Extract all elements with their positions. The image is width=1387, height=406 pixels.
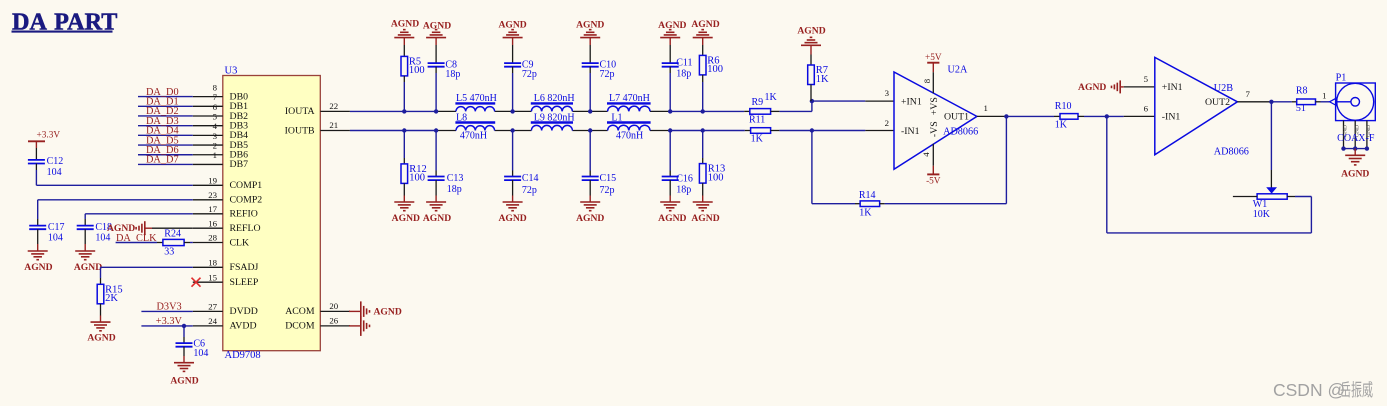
svg-text:33: 33	[164, 247, 174, 258]
svg-text:18p: 18p	[676, 184, 691, 195]
svg-text:72p: 72p	[522, 69, 537, 80]
svg-text:C14: C14	[522, 173, 539, 184]
svg-text:18: 18	[208, 258, 217, 268]
svg-text:AGND: AGND	[576, 213, 604, 224]
svg-text:CLK: CLK	[230, 237, 250, 248]
svg-text:470nH: 470nH	[460, 130, 487, 141]
svg-text:DA_D7: DA_D7	[146, 155, 179, 166]
svg-text:104: 104	[47, 167, 62, 178]
svg-text:COMP1: COMP1	[230, 180, 263, 191]
svg-text:470nH: 470nH	[616, 130, 643, 141]
svg-text:AGND: AGND	[24, 262, 52, 273]
svg-text:1K: 1K	[1055, 120, 1068, 131]
svg-text:COMP2: COMP2	[230, 195, 263, 206]
svg-text:100: 100	[409, 65, 425, 76]
svg-text:1: 1	[984, 103, 988, 113]
svg-text:AGND: AGND	[498, 20, 526, 31]
svg-text:DCOM: DCOM	[285, 321, 315, 332]
svg-text:8: 8	[213, 82, 218, 92]
svg-text:SLEEP: SLEEP	[230, 277, 259, 288]
svg-text:1K: 1K	[765, 92, 778, 103]
svg-text:AGND: AGND	[1078, 82, 1106, 93]
svg-text:1K: 1K	[816, 74, 829, 85]
svg-text:-VS: -VS	[929, 121, 940, 137]
svg-text:岳振威: 岳振威	[1340, 380, 1373, 400]
svg-text:18p: 18p	[445, 69, 460, 80]
svg-text:R9: R9	[752, 97, 764, 108]
svg-text:72p: 72p	[522, 185, 537, 196]
svg-text:+3.3V: +3.3V	[156, 316, 183, 327]
svg-text:D3V3: D3V3	[157, 301, 182, 312]
svg-text:72p: 72p	[600, 69, 615, 80]
svg-text:L5 470nH: L5 470nH	[456, 93, 497, 104]
svg-text:AGND: AGND	[170, 376, 198, 387]
svg-text:26: 26	[329, 316, 338, 326]
svg-text:C15: C15	[600, 173, 617, 184]
svg-text:R11: R11	[749, 114, 765, 125]
svg-text:OUT1: OUT1	[944, 112, 969, 123]
svg-text:6: 6	[1144, 103, 1149, 113]
svg-text:U2B: U2B	[1214, 83, 1233, 94]
svg-text:AGND: AGND	[423, 213, 451, 224]
svg-text:R10: R10	[1055, 101, 1072, 112]
svg-text:L9 820nH: L9 820nH	[534, 112, 575, 123]
svg-text:COAX-F: COAX-F	[1337, 133, 1375, 144]
svg-text:AGND: AGND	[74, 262, 102, 273]
svg-text:28: 28	[208, 233, 217, 243]
svg-text:27: 27	[208, 302, 217, 312]
svg-text:L7 470nH: L7 470nH	[609, 93, 650, 104]
svg-text:L6 820nH: L6 820nH	[534, 93, 575, 104]
svg-text:AGND: AGND	[87, 332, 115, 343]
svg-text:8: 8	[922, 78, 932, 83]
svg-text:-IN1: -IN1	[1162, 112, 1181, 123]
svg-text:AGND: AGND	[658, 20, 686, 31]
svg-text:IOUTB: IOUTB	[285, 125, 315, 136]
svg-text:-IN1: -IN1	[901, 126, 920, 137]
svg-text:1: 1	[1322, 90, 1326, 100]
svg-text:3: 3	[213, 131, 218, 141]
svg-text:C16: C16	[676, 174, 693, 185]
svg-text:AGND: AGND	[498, 213, 526, 224]
svg-text:4: 4	[213, 121, 218, 131]
svg-text:104: 104	[193, 348, 208, 359]
svg-text:100: 100	[409, 173, 425, 184]
svg-text:U3: U3	[225, 65, 238, 76]
svg-text:2K: 2K	[105, 293, 118, 304]
svg-text:18p: 18p	[447, 184, 462, 195]
svg-text:R14: R14	[859, 190, 876, 201]
svg-text:U2A: U2A	[948, 65, 968, 76]
svg-text:REFLO: REFLO	[230, 223, 261, 234]
svg-text:+3.3V: +3.3V	[37, 130, 61, 140]
svg-text:OUT2: OUT2	[1205, 97, 1230, 108]
svg-text:IOUTA: IOUTA	[285, 106, 315, 117]
svg-text:3: 3	[885, 88, 890, 98]
svg-text:1K: 1K	[751, 133, 764, 144]
svg-text:7: 7	[1246, 89, 1251, 99]
svg-text:100: 100	[707, 64, 723, 75]
svg-text:7: 7	[213, 92, 218, 102]
svg-text:L8: L8	[456, 112, 467, 123]
svg-text:AGND: AGND	[658, 213, 686, 224]
svg-text:72p: 72p	[600, 185, 615, 196]
svg-text:1K: 1K	[859, 208, 872, 219]
svg-text:+IN1: +IN1	[1162, 82, 1183, 93]
svg-text:18p: 18p	[676, 69, 691, 80]
svg-text:17: 17	[208, 204, 217, 214]
svg-text:15: 15	[208, 272, 217, 282]
svg-text:AGND: AGND	[797, 25, 825, 36]
svg-text:21: 21	[329, 120, 338, 130]
svg-text:AGND: AGND	[423, 20, 451, 31]
svg-text:DB7: DB7	[230, 159, 249, 170]
svg-text:C12: C12	[47, 156, 64, 167]
svg-text:AD9708: AD9708	[225, 350, 261, 361]
svg-text:+5V: +5V	[925, 53, 942, 63]
svg-text:16: 16	[208, 218, 217, 228]
svg-text:AD8066: AD8066	[943, 127, 978, 138]
svg-text:104: 104	[48, 233, 63, 244]
svg-text:10K: 10K	[1253, 209, 1271, 220]
svg-text:AGND: AGND	[691, 213, 719, 224]
svg-text:AGND: AGND	[374, 307, 402, 318]
svg-text:C13: C13	[447, 173, 464, 184]
svg-text:REFIO: REFIO	[230, 209, 258, 220]
svg-text:CSDN @: CSDN @	[1273, 380, 1345, 400]
svg-text:5: 5	[213, 111, 218, 121]
svg-text:22: 22	[329, 101, 338, 111]
svg-text:-5V: -5V	[926, 176, 941, 186]
svg-text:C11: C11	[676, 58, 692, 69]
svg-text:+IN1: +IN1	[901, 96, 922, 107]
svg-text:R8: R8	[1296, 85, 1308, 96]
svg-text:FSADJ: FSADJ	[230, 262, 259, 273]
svg-text:20: 20	[329, 301, 338, 311]
svg-text:AGND: AGND	[576, 20, 604, 31]
svg-text:AGND: AGND	[391, 19, 419, 30]
svg-text:C17: C17	[48, 222, 65, 233]
svg-text:AD8066: AD8066	[1214, 147, 1249, 158]
svg-text:AVDD: AVDD	[230, 321, 257, 332]
svg-text:AGND: AGND	[1341, 169, 1369, 180]
svg-text:DVDD: DVDD	[230, 306, 258, 317]
svg-text:19: 19	[208, 176, 217, 186]
svg-text:51: 51	[1296, 103, 1306, 114]
svg-text:2: 2	[213, 141, 217, 151]
svg-text:+VS: +VS	[929, 97, 940, 115]
svg-text:2: 2	[885, 118, 889, 128]
svg-text:5: 5	[1144, 74, 1149, 84]
svg-text:104: 104	[95, 233, 110, 244]
svg-text:R24: R24	[164, 229, 181, 240]
svg-text:AGND: AGND	[392, 213, 420, 224]
svg-text:24: 24	[208, 316, 217, 326]
svg-text:100: 100	[708, 172, 724, 183]
svg-text:1: 1	[213, 150, 217, 160]
svg-text:AGND: AGND	[691, 19, 719, 30]
svg-text:ACOM: ACOM	[285, 306, 315, 317]
svg-text:P1: P1	[1336, 72, 1347, 83]
svg-text:23: 23	[208, 190, 217, 200]
svg-text:4: 4	[921, 152, 931, 157]
svg-text:6: 6	[213, 102, 218, 112]
svg-text:L1: L1	[611, 112, 622, 123]
